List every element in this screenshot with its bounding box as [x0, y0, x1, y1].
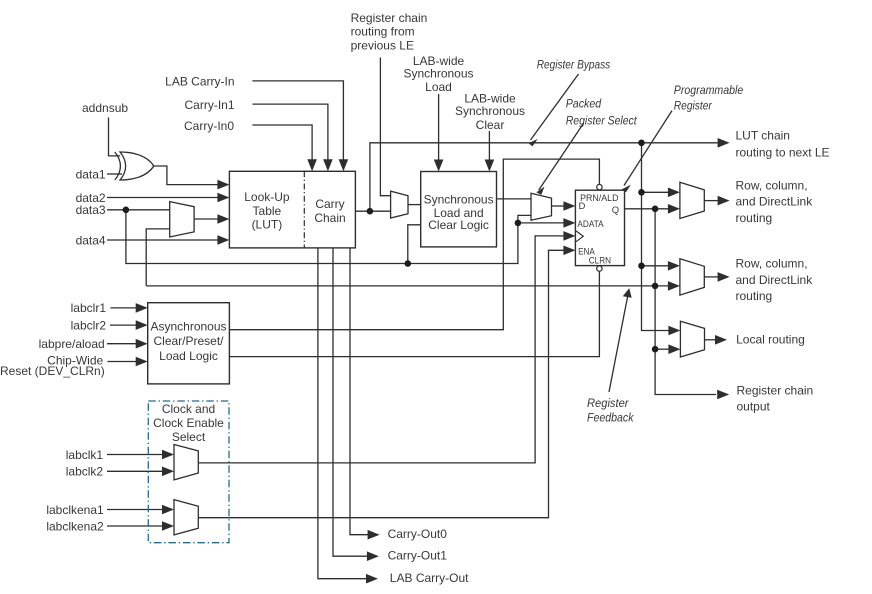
arrowheads into register D ADATA clock ENA	[563, 201, 575, 211]
wire third mux lower input	[655, 348, 669, 350]
junction dot ADATA riser	[515, 220, 522, 227]
svg-text:routing: routing	[736, 211, 773, 225]
annotation packed register select pointer	[536, 124, 583, 195]
annotation programmable register pointer	[622, 111, 672, 193]
svg-text:labpre/aload: labpre/aload	[39, 337, 105, 351]
annotation register bypass pointer	[528, 74, 578, 146]
XOR gate G1	[115, 152, 154, 180]
svg-text:Feedback: Feedback	[587, 411, 634, 425]
wire Carry-In0	[252, 125, 312, 163]
clock and clock enable select dashed box	[148, 401, 229, 543]
LUT / carry chain box	[229, 171, 355, 248]
wire Q output to routing mux R1	[625, 208, 669, 210]
mux R2 routing	[680, 259, 704, 295]
wire labclkena2 input	[107, 525, 163, 527]
svg-text:Carry-Out0: Carry-Out0	[388, 527, 448, 541]
wire routing mux R1 upper input	[642, 191, 669, 193]
svg-text:Look-Up: Look-Up	[244, 190, 290, 204]
mux M3 packed register select	[531, 193, 552, 220]
svg-text:labclr1: labclr1	[71, 301, 107, 315]
junction dot LUT/carry output node	[367, 208, 374, 215]
svg-text:routing from: routing from	[351, 25, 415, 39]
svg-text:Load: Load	[425, 80, 452, 94]
svg-text:Register Select: Register Select	[566, 114, 638, 128]
wire labclr2 input	[110, 324, 137, 326]
wire PRN from async box	[229, 159, 599, 330]
wire register feedback to mux M1 lower input	[146, 229, 170, 286]
arrowheads into routing muxes	[668, 188, 680, 198]
svg-text:routing: routing	[736, 289, 773, 303]
svg-text:Select: Select	[172, 430, 206, 444]
wire LAB Carry-Out	[318, 248, 367, 579]
junction dot feedback to sync box	[405, 260, 412, 267]
CLRN bubble	[597, 266, 602, 271]
svg-text:(LUT): (LUT)	[252, 218, 283, 232]
svg-text:LUT chain: LUT chain	[736, 128, 790, 142]
arrowheads carry outputs	[368, 530, 380, 540]
wire XOR output to LUT	[154, 166, 218, 185]
svg-text:Q: Q	[612, 205, 619, 216]
wire routing mux R2 output	[704, 276, 718, 278]
arrowheads carry-in into carry chain top	[339, 159, 349, 171]
svg-text:output: output	[737, 399, 771, 413]
wire clock line from clock mux	[198, 236, 563, 463]
arrowheads outputs right side	[718, 138, 730, 148]
PRN bubble	[597, 184, 602, 189]
annotation register feedback pointer	[609, 288, 632, 392]
svg-text:Synchronous: Synchronous	[424, 193, 494, 207]
register U1 box	[575, 190, 624, 265]
arrowheads into LUT	[217, 180, 229, 190]
svg-text:Programmable: Programmable	[674, 83, 744, 97]
svg-text:and DirectLink: and DirectLink	[736, 195, 814, 209]
wire routing mux R1 output	[704, 200, 718, 202]
svg-text:data1: data1	[76, 167, 106, 181]
mux M2 register chain select	[391, 191, 408, 218]
svg-text:Chain: Chain	[314, 211, 345, 225]
wire addnsub vertical into XOR	[109, 118, 121, 156]
svg-text:labclkena2: labclkena2	[46, 519, 104, 533]
mux clock select	[174, 445, 198, 480]
wire data2 to LUT	[107, 197, 218, 199]
arrowheads into clock muxes	[162, 450, 174, 460]
svg-text:Clock Enable: Clock Enable	[153, 416, 224, 430]
wire labclk2 input	[107, 470, 163, 472]
arrowheads into async box	[136, 303, 148, 313]
wire LAB-wide synchronous clear vertical	[488, 131, 490, 163]
svg-text:LAB Carry-Out: LAB Carry-Out	[390, 571, 469, 585]
svg-text:Register chain: Register chain	[351, 11, 428, 25]
svg-text:Clear Logic: Clear Logic	[428, 218, 489, 232]
wire ADATA into register	[518, 222, 564, 224]
wire data3 feedback branch down and right to ADATA riser	[126, 210, 518, 264]
svg-text:PRN/ALD: PRN/ALD	[580, 193, 619, 204]
wire Q down to register chain output	[655, 209, 716, 395]
svg-text:addnsub: addnsub	[82, 101, 128, 115]
wire sync box output to packed mux	[497, 198, 532, 200]
wire LAB-wide synchronous load vertical	[438, 94, 440, 163]
wire data3 to mux M1	[107, 209, 170, 211]
svg-text:LAB Carry-In: LAB Carry-In	[165, 74, 234, 88]
junction dot Q/feedback crossing	[652, 283, 659, 290]
junction dot R2 upper input	[638, 263, 645, 270]
svg-text:Clear: Clear	[476, 118, 505, 132]
svg-text:labclkena1: labclkena1	[46, 503, 104, 517]
arrowheads sync load / clear into sync box top	[434, 160, 444, 172]
svg-text:labclr2: labclr2	[71, 318, 107, 332]
svg-text:and DirectLink: and DirectLink	[736, 273, 814, 287]
wire ENA line from clkena mux	[198, 250, 564, 517]
divider dash-dot in LUT box	[303, 171, 305, 248]
svg-text:Asynchronous: Asynchronous	[150, 319, 226, 333]
wire carry chain output to mux M2	[355, 210, 390, 212]
svg-text:data3: data3	[76, 203, 106, 217]
mux M1 data3/feedback	[170, 202, 194, 237]
svg-text:Local routing: Local routing	[736, 333, 805, 347]
asynchronous clear/preset/load logic box	[148, 303, 230, 384]
wire chip-wide reset input	[108, 361, 137, 363]
wire routing mux R3 output	[705, 339, 716, 341]
svg-text:Synchronous: Synchronous	[455, 104, 525, 118]
svg-text:labclk1: labclk1	[66, 448, 104, 462]
wire branch up into sync box	[408, 225, 421, 264]
wire packed mux lower input	[518, 215, 531, 223]
mux R3 local routing	[680, 321, 704, 357]
wire Carry-In1	[252, 104, 328, 162]
wire register feedback horizontal	[146, 285, 668, 287]
wire mux M2 output into sync box	[408, 204, 421, 206]
wire Carry-Out1	[333, 248, 368, 556]
wire labclkena1 input	[107, 509, 163, 511]
wire labclr1 input	[110, 307, 136, 309]
junction dot R1 upper input	[638, 189, 645, 196]
svg-text:CLRN: CLRN	[589, 255, 611, 266]
wire LUT chain routing line	[370, 143, 718, 211]
svg-text:labclk2: labclk2	[66, 465, 104, 479]
svg-text:Row, column,: Row, column,	[736, 178, 808, 192]
wire data4 to LUT	[107, 239, 218, 241]
svg-text:ADATA: ADATA	[577, 219, 604, 230]
svg-text:Register chain: Register chain	[737, 384, 814, 398]
svg-text:Carry-In0: Carry-In0	[184, 119, 234, 133]
wire packed mux output to D	[552, 205, 565, 207]
wire CLRN from async box	[229, 271, 599, 356]
svg-text:routing to next LE: routing to next LE	[736, 145, 830, 159]
svg-text:Register: Register	[674, 99, 713, 113]
svg-text:LAB-wide: LAB-wide	[413, 54, 465, 68]
svg-text:Carry-In1: Carry-In1	[184, 98, 234, 112]
mux R1 routing	[680, 182, 704, 218]
wire register chain from previous LE	[380, 58, 390, 196]
svg-text:data4: data4	[76, 233, 106, 247]
wire data1 into XOR	[107, 173, 122, 175]
wire Carry-Out0	[350, 248, 369, 535]
junction dot data3	[123, 207, 130, 214]
junction dot Q line	[652, 206, 659, 213]
svg-text:Load Logic: Load Logic	[159, 349, 218, 363]
svg-text:Reset (DEV_CLRn): Reset (DEV_CLRn)	[0, 364, 105, 378]
svg-text:Clear/Preset/: Clear/Preset/	[153, 334, 224, 348]
svg-text:Register: Register	[587, 396, 629, 410]
junction dot R3 lower input	[652, 346, 659, 353]
wire LUT-output vertical to routing muxes	[642, 143, 670, 331]
wire labpre/aload input	[107, 343, 137, 345]
mux clock enable select	[174, 500, 198, 535]
svg-text:Carry-Out1: Carry-Out1	[388, 548, 448, 562]
svg-text:Synchronous: Synchronous	[403, 67, 473, 81]
wire routing mux R2 upper input	[642, 265, 669, 267]
wire mux M1 output to LUT	[194, 218, 218, 220]
wire LAB Carry-In	[252, 81, 343, 163]
svg-text:Row, column,: Row, column,	[736, 256, 808, 270]
svg-text:Carry: Carry	[315, 197, 344, 211]
svg-text:Register Bypass: Register Bypass	[537, 58, 611, 72]
svg-text:D: D	[579, 201, 586, 212]
synchronous load and clear logic box	[421, 172, 497, 247]
svg-text:previous LE: previous LE	[351, 39, 414, 53]
svg-text:Table: Table	[253, 204, 282, 218]
clock wedge inside register	[576, 231, 583, 242]
svg-text:Clock and: Clock and	[162, 402, 215, 416]
svg-text:Packed: Packed	[566, 97, 602, 111]
wire labclk1 input	[107, 454, 163, 456]
junction dot LUT chain line	[638, 140, 645, 147]
